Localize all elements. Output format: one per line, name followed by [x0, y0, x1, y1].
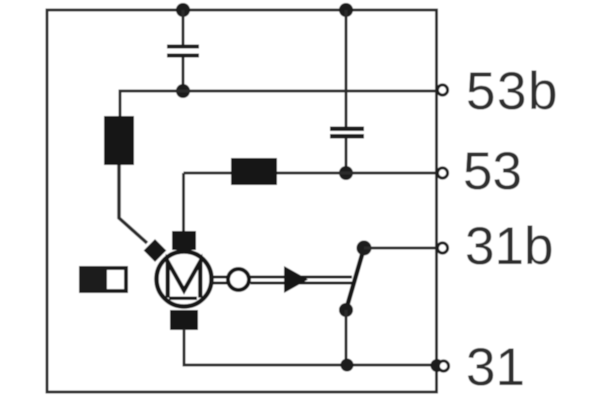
- enclosure box (motor housing outline): [47, 10, 437, 392]
- terminal 53: [437, 168, 447, 178]
- wire (switch contact down to 31 rail): [345, 310, 348, 365]
- wire (C2 to 53 rail): [345, 138, 348, 173]
- motor M1 bottom brush block: [170, 310, 198, 330]
- actuator arrowhead: [284, 266, 308, 293]
- node A (junction on top bus, capacitor C1 tap): [176, 3, 190, 17]
- resistor R1 (series resistor, filled body): [104, 116, 134, 165]
- permanent magnet (stator symbol): [79, 266, 126, 293]
- svg-text:53b: 53b: [466, 62, 559, 121]
- node C (junction of C1 with 53b rail): [176, 84, 190, 98]
- resistor R2 (filled body on 53 rail): [231, 158, 277, 185]
- svg-text:31b: 31b: [465, 217, 553, 276]
- terminal 31: [438, 361, 448, 371]
- cam follower (open circle on linkage): [228, 269, 249, 290]
- node H (31 rail at housing border): [431, 359, 444, 372]
- wire (motor bottom brush to 31 rail): [184, 329, 437, 365]
- capacitor C2: [330, 127, 364, 139]
- label 31b: [465, 217, 553, 276]
- motor M1 (armature circle with M): [157, 252, 212, 307]
- wire (C2 branch vertical from top bus): [345, 10, 348, 128]
- wire (53 horizontal rail): [184, 172, 437, 175]
- third brush (diamond contact on motor): [144, 239, 167, 262]
- wire (capacitor C1 to 53b rail): [182, 58, 185, 92]
- wire (53b horizontal rail): [120, 90, 437, 93]
- svg-text:31: 31: [466, 338, 525, 397]
- node F (switch lower contact): [339, 303, 353, 317]
- svg-text:53: 53: [463, 142, 522, 201]
- drive linkage (double line, cam to switch blade): [251, 277, 353, 283]
- label 31: [466, 338, 525, 397]
- park switch S1 blade: [346, 248, 364, 310]
- terminal 53b: [437, 85, 447, 95]
- wire (switch to 31b terminal): [364, 247, 437, 250]
- node G (junction on 31 rail): [341, 359, 354, 372]
- terminal 31b: [437, 243, 447, 253]
- node D (junction of C2 with 53 rail): [339, 166, 353, 180]
- node B (junction on top bus, C2 branch tap): [339, 3, 353, 17]
- wire (top bus to capacitor C1): [182, 10, 185, 45]
- wire (53 rail corner down to motor top brush): [182, 173, 185, 232]
- node E (switch pivot, 31b contact): [357, 241, 372, 256]
- motor M1 top brush block: [172, 231, 196, 250]
- drive linkage (double line from motor shaft): [211, 277, 227, 283]
- wire (R1 down then diagonal to third brush): [119, 165, 147, 243]
- capacitor C1: [167, 45, 199, 58]
- wire (left branch down to resistor R1): [119, 90, 122, 118]
